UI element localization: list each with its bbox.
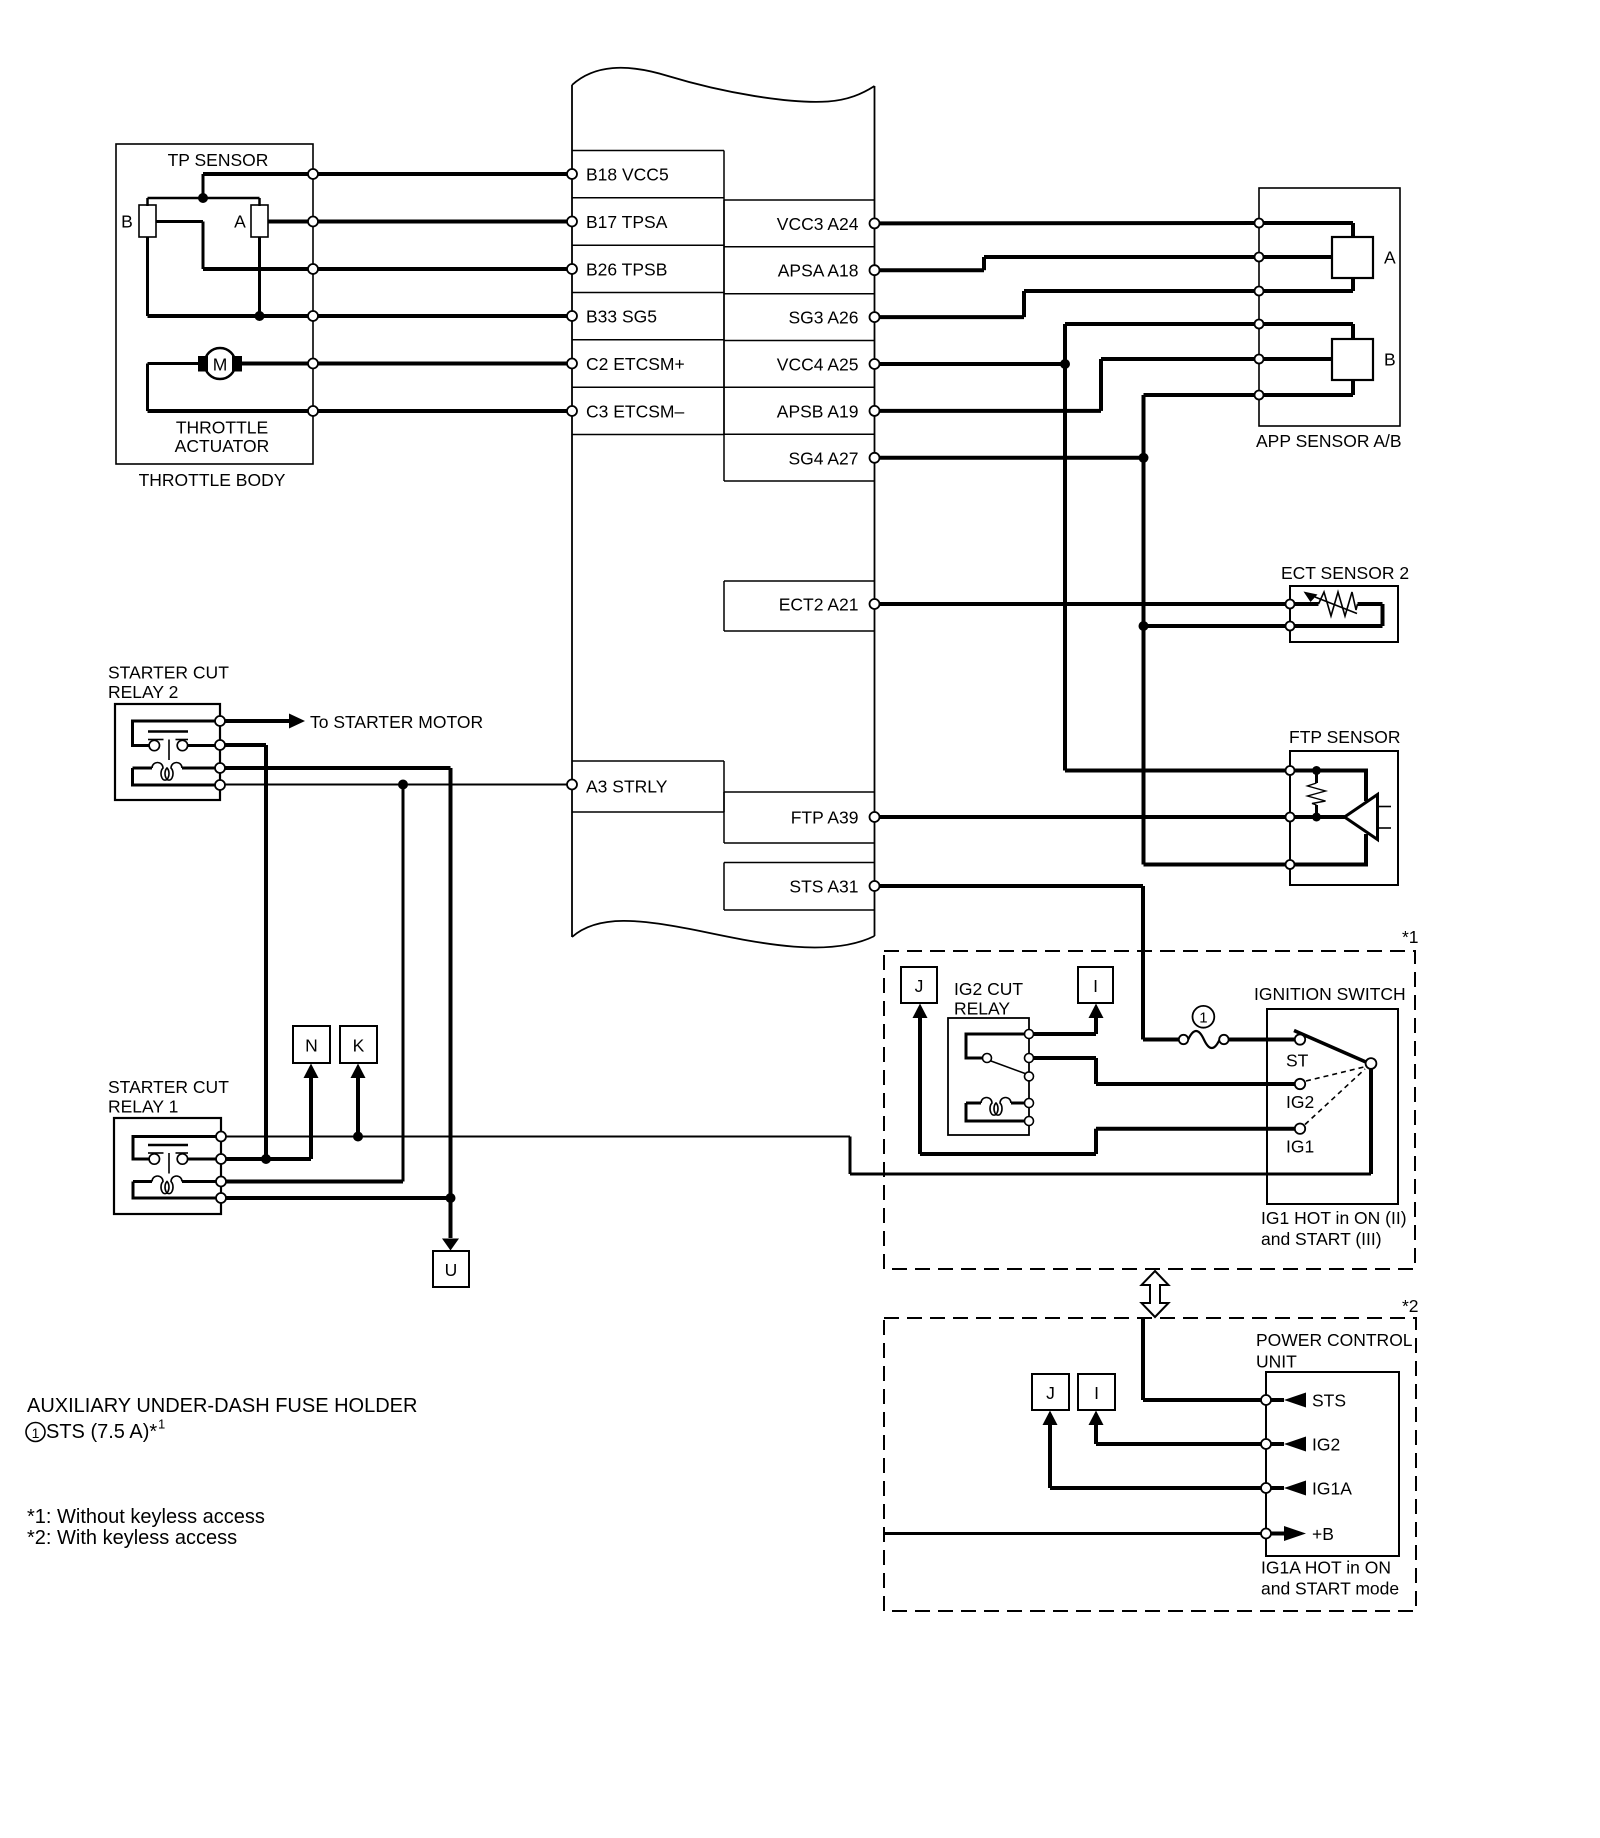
svg-text:A: A [1384, 248, 1396, 268]
svg-text:RELAY 1: RELAY 1 [108, 1097, 178, 1117]
svg-text:+B: +B [1312, 1524, 1334, 1544]
svg-text:B26 TPSB: B26 TPSB [586, 260, 667, 280]
svg-text:VCC4 A25: VCC4 A25 [777, 355, 859, 375]
svg-text:ECT2 A21: ECT2 A21 [779, 595, 859, 615]
svg-text:SG4 A27: SG4 A27 [788, 448, 858, 468]
svg-text:TP SENSOR: TP SENSOR [168, 150, 269, 170]
svg-text:N: N [305, 1036, 318, 1056]
svg-text:APSB A19: APSB A19 [777, 401, 859, 421]
svg-text:STARTER CUT: STARTER CUT [108, 1077, 229, 1097]
svg-text:A: A [234, 212, 246, 232]
svg-text:B: B [1384, 350, 1396, 370]
svg-text:IG1: IG1 [1286, 1137, 1314, 1157]
svg-text:STS: STS [1312, 1391, 1346, 1411]
svg-text:UNIT: UNIT [1256, 1352, 1297, 1372]
svg-text:SG3 A26: SG3 A26 [788, 308, 858, 328]
svg-text:ST: ST [1286, 1051, 1309, 1071]
svg-text:*2: With keyless access: *2: With keyless access [27, 1527, 237, 1549]
svg-text:I: I [1093, 976, 1098, 996]
svg-text:FTP SENSOR: FTP SENSOR [1289, 727, 1401, 747]
svg-text:C2 ETCSM+: C2 ETCSM+ [586, 354, 685, 374]
svg-text:and START (III): and START (III) [1261, 1229, 1382, 1249]
svg-text:THROTTLE BODY: THROTTLE BODY [139, 470, 286, 490]
svg-text:AUXILIARY UNDER-DASH FUSE HOLD: AUXILIARY UNDER-DASH FUSE HOLDER [27, 1395, 417, 1417]
svg-text:RELAY 2: RELAY 2 [108, 682, 178, 702]
svg-text:1: 1 [1199, 1009, 1207, 1026]
svg-text:B18 VCC5: B18 VCC5 [586, 165, 669, 185]
svg-text:and START mode: and START mode [1261, 1579, 1399, 1599]
svg-text:THROTTLE: THROTTLE [176, 418, 268, 438]
svg-text:APP SENSOR A/B: APP SENSOR A/B [1256, 431, 1402, 451]
svg-text:J: J [1046, 1383, 1055, 1403]
svg-text:IG1A HOT in ON: IG1A HOT in ON [1261, 1558, 1391, 1578]
svg-text:1: 1 [158, 1417, 165, 1432]
svg-text:IG1 HOT in ON (II): IG1 HOT in ON (II) [1261, 1208, 1407, 1228]
svg-text:J: J [915, 976, 924, 996]
svg-text:ECT SENSOR 2: ECT SENSOR 2 [1281, 563, 1409, 583]
svg-text:B33 SG5: B33 SG5 [586, 307, 657, 327]
svg-text:*1: *1 [1402, 927, 1419, 947]
svg-text:VCC3 A24: VCC3 A24 [777, 214, 859, 234]
svg-text:To STARTER MOTOR: To STARTER MOTOR [310, 712, 483, 732]
svg-text:STS A31: STS A31 [789, 877, 858, 897]
svg-text:U: U [445, 1260, 458, 1280]
svg-text:C3 ETCSM–: C3 ETCSM– [586, 402, 684, 422]
svg-text:IGNITION SWITCH: IGNITION SWITCH [1254, 984, 1406, 1004]
svg-text:RELAY: RELAY [954, 999, 1010, 1019]
svg-text:IG2: IG2 [1286, 1092, 1314, 1112]
svg-text:STARTER CUT: STARTER CUT [108, 663, 229, 683]
svg-text:FTP A39: FTP A39 [791, 808, 859, 828]
svg-text:IG2 CUT: IG2 CUT [954, 979, 1023, 999]
svg-text:I: I [1094, 1383, 1099, 1403]
svg-text:B: B [121, 212, 133, 232]
svg-text:ACTUATOR: ACTUATOR [175, 436, 270, 456]
svg-text:*2: *2 [1402, 1296, 1419, 1316]
svg-text:1: 1 [32, 1425, 40, 1441]
svg-text:STS (7.5 A)*: STS (7.5 A)* [46, 1421, 157, 1443]
svg-text:IG2: IG2 [1312, 1435, 1340, 1455]
svg-text:A3 STRLY: A3 STRLY [586, 777, 668, 797]
svg-text:*1: Without keyless access: *1: Without keyless access [27, 1506, 265, 1528]
svg-text:B17 TPSA: B17 TPSA [586, 212, 668, 232]
svg-text:K: K [353, 1036, 365, 1056]
svg-text:APSA A18: APSA A18 [778, 261, 859, 281]
svg-text:IG1A: IG1A [1312, 1479, 1352, 1499]
svg-text:POWER CONTROL: POWER CONTROL [1256, 1330, 1413, 1350]
svg-text:M: M [213, 355, 228, 375]
